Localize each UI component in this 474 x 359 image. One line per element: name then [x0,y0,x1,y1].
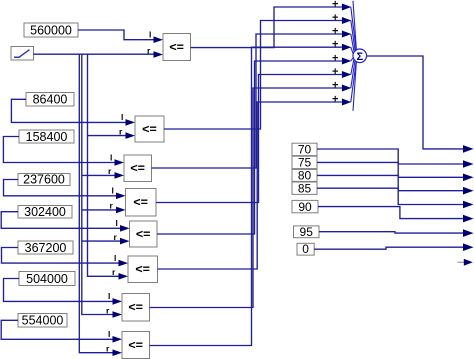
svg-text:l: l [110,152,112,162]
input arrow U7 l [113,298,123,305]
wire ramp output to U1 r [34,53,154,55]
input arrow U5 r [120,238,130,245]
input arrow U6 l [119,260,129,267]
wire U6 output to sum port 6 [158,102,342,269]
relational operator U6 (<=) [128,256,158,283]
arrow sum port 7 [342,84,351,91]
arrow sum port 3 [342,30,351,37]
input arrow U3 l [115,159,125,166]
svg-text:367200: 367200 [25,241,67,255]
svg-text:<=: <= [136,229,151,241]
svg-text:<=: <= [169,42,184,54]
svg-text:<=: <= [133,197,148,209]
constant C1 value 560000 [24,23,78,38]
svg-text:l: l [108,291,110,301]
arrow sum port 6 [342,71,351,78]
wire C1 to U1 l [78,30,154,40]
input arrow U1 l [154,36,164,43]
wire K5 to out arrow 6 [318,207,464,219]
svg-text:l: l [108,329,110,339]
wire U7 output to sum port 7 [150,88,342,308]
svg-text:554000: 554000 [22,314,64,328]
svg-text:237600: 237600 [23,173,65,187]
wire K4 to out arrow 5 [317,188,464,204]
wire K2 to out arrow 3 [317,162,464,177]
wire branch B to U3 r [82,174,116,176]
relational operator U4 (<=) [126,189,157,217]
out arrow 5 [463,201,474,209]
input arrow U1 r [154,51,164,58]
svg-text:0: 0 [302,242,309,256]
arrow sum port 2 [342,17,351,24]
arrow sum port 4 [342,44,351,51]
svg-text:+: + [332,0,338,11]
svg-text:l: l [112,186,114,196]
constant K5 value 90 [292,200,318,214]
svg-text:l: l [114,253,116,263]
wire C5 to U5 l [1,212,121,229]
wire ramp branch vertical C to U6 r [88,54,120,276]
input arrow U5 l [120,225,130,232]
input arrow U7 r [113,311,123,318]
input arrow U8 l [113,336,123,343]
wire U8 output to sum port 8 [150,47,342,345]
constant K3 value 80 [292,169,317,183]
wire K1 to out arrow 2 [317,149,464,164]
svg-text:70: 70 [298,143,312,157]
wire C7 to U7 l [4,279,114,302]
svg-text:<=: <= [128,302,143,314]
relational operator U1 (<=) [163,34,191,61]
constant C3 value 158400 [19,130,74,144]
sum block S1 port fan [351,7,356,102]
out arrow 4 [463,187,474,195]
wire ramp branch vertical B to U7 r [82,54,114,314]
relational operator U5 (<=) [130,221,158,247]
svg-text:85: 85 [298,181,312,195]
arrow sum port 5 [342,57,351,64]
svg-text:95: 95 [300,225,314,239]
constant K6 value 95 [294,225,320,239]
svg-text:<=: <= [130,163,145,175]
wire U4 output to sum port 4 [156,75,342,203]
input arrow U4 r [116,207,126,214]
input arrow U4 l [116,193,126,200]
svg-text:<=: <= [128,340,143,352]
relational operator U3 (<=) [124,155,152,182]
constant C8 value 554000 [18,314,67,328]
input arrow U2 l [126,119,136,126]
wire branch B to U5 r [82,240,121,242]
svg-text:Σ: Σ [356,51,363,63]
wire K6 to out arrow 7 [319,232,464,233]
wire K7 to out arrow 8 [314,247,463,249]
svg-text:158400: 158400 [26,130,68,144]
svg-text:+: + [332,94,338,106]
svg-text:90: 90 [298,200,312,214]
svg-text:+: + [332,26,338,38]
input arrow U2 r [126,132,136,139]
relational operator U2 (<=) [135,116,164,142]
wire U2 output to sum port 2 [164,21,342,130]
svg-text:+: + [332,39,338,51]
svg-text:75: 75 [298,156,312,170]
constant C6 value 367200 [18,241,73,255]
wire C2 to U2 l [11,99,126,122]
constant C5 value 302400 [18,205,72,219]
constant K1 value 70 [292,143,317,157]
svg-text:+: + [332,66,338,78]
svg-text:l: l [121,112,123,122]
wire branch B to U4 r [82,209,117,211]
arrow sum port 1 [342,3,351,10]
svg-text:302400: 302400 [24,205,66,219]
svg-text:<=: <= [142,124,157,136]
out arrow 8 [463,243,474,251]
constant C7 value 504000 [19,272,75,287]
wire C4 to U4 l [4,180,117,196]
svg-text:+: + [332,53,338,65]
svg-text:560000: 560000 [30,24,72,38]
out arrow 3 [463,174,474,182]
relational operator U7 (<=) [122,294,150,322]
out arrow 7 [463,229,474,237]
constant C4 value 237600 [18,173,70,187]
input arrow U8 r [113,349,123,356]
wire K3 to out arrow 4 [317,175,464,190]
wire C8 to U8 l [1,320,113,339]
svg-text:<=: <= [135,264,150,276]
constant K2 value 75 [292,156,317,170]
out arrow 9 (small) [458,259,473,266]
out arrow 2 [463,160,474,168]
svg-text:+: + [332,80,338,92]
svg-text:504000: 504000 [26,272,68,286]
input arrow U6 r [119,273,129,280]
constant C2 value 86400 [26,93,74,107]
constant K7 value 0 [297,242,314,256]
constant K4 value 85 [292,181,317,195]
svg-text:l: l [116,218,118,228]
wire ramp branch vertical A to U8 r [79,54,113,353]
relational operator U8 (<=) [122,332,150,359]
arrow sum port 8 [342,98,351,105]
input arrow U3 r [115,172,125,179]
out arrow 1 [463,145,474,153]
svg-text:+: + [332,12,338,24]
wire U5 output to sum port 5 [157,61,342,234]
wire U1 output to sum port 1 [191,7,342,48]
wire U3 output to sum port 3 [152,34,342,168]
wire C6 to U6 l [2,248,120,264]
ramp source block [11,47,34,61]
wire C3 to U3 l [3,137,115,163]
svg-text:86400: 86400 [33,93,68,107]
svg-text:l: l [149,30,151,40]
out arrow 6 [463,215,474,223]
wire branch C to U2 r [88,135,127,137]
sum block S1 circle [353,49,367,63]
wire sum output to out arrow 1 [367,56,464,149]
sum block S1 funnel outline [353,1,356,111]
